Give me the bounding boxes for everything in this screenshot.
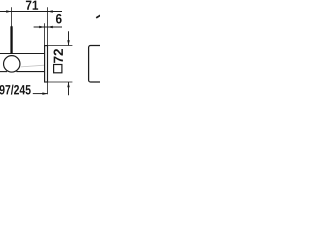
wire body top line bbox=[0, 53, 45, 55]
arrow 97/245 right bbox=[42, 92, 47, 95]
extension line plate front bbox=[44, 23, 46, 45]
leader mark top right bbox=[96, 15, 101, 18]
escutcheon plate side view bbox=[45, 46, 48, 82]
arrow 6 right bbox=[48, 26, 53, 29]
arrow 71 left bbox=[6, 10, 11, 13]
square symbol of sq72 label bbox=[54, 65, 62, 73]
label 6 bbox=[56, 14, 62, 24]
extension line wall face upper bbox=[47, 7, 49, 45]
dimension line 71 bbox=[0, 11, 62, 13]
extension line left of 71 bbox=[11, 7, 13, 27]
label 71 bbox=[26, 1, 38, 10]
handle hub circle bbox=[4, 56, 20, 72]
arrow sq72 down bbox=[67, 40, 70, 45]
wire taper shading line bbox=[21, 65, 45, 67]
label 97/245 bbox=[0, 85, 31, 95]
handle lever bar bbox=[10, 26, 12, 54]
dimension line sq72 lower bbox=[68, 82, 70, 95]
arrow sq72 up bbox=[67, 82, 70, 87]
arrow 6 left bbox=[39, 26, 44, 29]
extension line wall face lower bbox=[47, 82, 49, 94]
wire body bottom line bbox=[0, 71, 7, 73]
label 72 rotated bbox=[54, 49, 63, 63]
extension line square bottom bbox=[48, 81, 72, 83]
arrow 71 right bbox=[48, 10, 53, 13]
dimension line sq72 upper bbox=[68, 31, 70, 45]
dimension line 97/245 bbox=[33, 93, 48, 95]
front view square escutcheon bbox=[89, 46, 115, 83]
extension line square top bbox=[48, 45, 72, 47]
dimension line 6 bbox=[34, 26, 62, 28]
